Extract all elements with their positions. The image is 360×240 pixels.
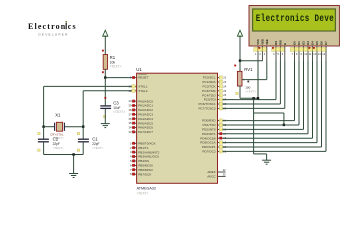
- wire D7: [325, 61, 327, 151]
- node reset junction: [104, 76, 106, 78]
- capacitor C1: [77, 132, 79, 134]
- wire bottom collector: [44, 154, 84, 156]
- svg-text:D2: D2: [302, 41, 306, 45]
- svg-text:<TEXT>: <TEXT>: [137, 191, 149, 195]
- node branch end: [283, 124, 285, 126]
- svg-text:PD4/OC1B: PD4/OC1B: [200, 136, 215, 140]
- svg-text:C3: C3: [113, 101, 119, 106]
- svg-text:C2: C2: [53, 137, 59, 142]
- svg-text:PA4/ADC4: PA4/ADC4: [138, 117, 153, 121]
- svg-text:D3: D3: [306, 41, 310, 45]
- svg-text:PD2/INT0: PD2/INT0: [202, 128, 216, 132]
- pin PC0/SCL (22): [218, 77, 223, 79]
- svg-text:D1: D1: [297, 41, 301, 45]
- svg-text:DEVELOPER: DEVELOPER: [38, 33, 68, 37]
- pin PB0/T0/XCK (1): [132, 142, 137, 144]
- resistor R1: [102, 50, 104, 52]
- pin PB4/SS (5): [132, 160, 137, 162]
- wire R1 to reset node: [104, 69, 106, 77]
- svg-text:VDD: VDD: [261, 39, 265, 45]
- svg-text:Electronics Deve: Electronics Deve: [256, 13, 334, 24]
- svg-text:AVCC: AVCC: [207, 175, 216, 179]
- svg-text:U1: U1: [136, 67, 142, 72]
- svg-text:PA5/ADC5: PA5/ADC5: [138, 121, 153, 125]
- svg-text:PC2/TCK: PC2/TCK: [203, 85, 217, 89]
- svg-text:PD3/INT1: PD3/INT1: [202, 132, 216, 136]
- svg-text:C1: C1: [92, 137, 98, 142]
- pin PB3/AIN1/OC0 (4): [132, 156, 137, 158]
- power VCC arrow (left): [103, 30, 108, 36]
- pin PD0/RXD (14): [218, 120, 223, 122]
- svg-text:PD7/OC2: PD7/OC2: [202, 150, 216, 154]
- wire RW: [279, 61, 281, 104]
- wire C1 down: [82, 142, 84, 155]
- LCD screen: [253, 9, 336, 31]
- svg-text:D5: D5: [315, 41, 319, 45]
- pin PD2/INT0 (16): [218, 128, 223, 130]
- pin PD7/OC2 (21): [218, 150, 223, 152]
- pin PA6/ADC6 (34): [132, 127, 137, 129]
- svg-text:cs: cs: [68, 22, 77, 31]
- wire wiper to VEE: [246, 79, 266, 81]
- svg-text:PC6/TOSC1: PC6/TOSC1: [198, 102, 215, 106]
- pin PC6/TOSC1 (28): [218, 103, 223, 105]
- wire reset node to U1 RESET: [105, 77, 132, 79]
- svg-text:<TEXT>: <TEXT>: [53, 146, 64, 150]
- svg-text:AREF: AREF: [207, 170, 215, 174]
- ground under C3: [101, 124, 110, 128]
- wire arrow to rail node: [239, 36, 241, 61]
- svg-text:PB6/MISO: PB6/MISO: [138, 168, 153, 172]
- wire D0: [294, 61, 296, 121]
- svg-text:XTAL2: XTAL2: [138, 89, 148, 93]
- pin PA0/ADC0 (40): [132, 100, 137, 102]
- op body U1 ATMEGA32: [137, 73, 218, 183]
- wire stem to ground: [73, 155, 75, 174]
- pin XTAL2 (12): [132, 90, 137, 92]
- node VSS join: [257, 97, 259, 99]
- wire ground run down: [253, 98, 255, 154]
- node crystal right: [82, 126, 84, 128]
- pin PB2/AIN0/INT2 (3): [132, 151, 137, 153]
- wire D5: [316, 61, 318, 143]
- svg-text:PB5/MOSI: PB5/MOSI: [138, 164, 153, 168]
- svg-text:ATMEGA32: ATMEGA32: [137, 187, 156, 191]
- svg-text:PD5/OC1A: PD5/OC1A: [200, 141, 216, 145]
- pin RESET (9): [132, 77, 137, 79]
- svg-text:PD1/TXD: PD1/TXD: [203, 123, 217, 127]
- wire ground jog: [254, 153, 267, 155]
- pot wiper arrow: [242, 79, 247, 81]
- potentiometer RV1: [234, 65, 236, 67]
- wire pot bottom: [239, 86, 241, 98]
- svg-text:PC7/TOSC2: PC7/TOSC2: [198, 107, 215, 111]
- svg-text:R1: R1: [110, 55, 116, 60]
- svg-text:VSS: VSS: [256, 39, 260, 45]
- wire right node to C1: [82, 127, 84, 140]
- node power rail: [239, 60, 241, 62]
- svg-text:VEE: VEE: [265, 39, 269, 45]
- wire D6: [321, 61, 323, 147]
- capacitor C3: [104, 97, 106, 99]
- pin PC4/TDO (26): [218, 94, 223, 96]
- LCD module body: [249, 6, 339, 47]
- pin PA2/ADC2 (38): [132, 109, 137, 111]
- pin PA1/ADC1 (39): [132, 105, 137, 107]
- pin AVCC (30): [218, 175, 226, 177]
- pin PA4/ADC4 (36): [132, 118, 137, 120]
- wire D4: [312, 61, 314, 138]
- svg-text:PD6/ICP1: PD6/ICP1: [202, 145, 216, 149]
- svg-text:PB7/SCK: PB7/SCK: [138, 172, 152, 176]
- wire E: [284, 61, 286, 108]
- wire D2: [303, 61, 305, 129]
- wire left node to C2: [43, 127, 45, 140]
- ground under LCD: [262, 160, 271, 164]
- wire crystal row: [44, 126, 55, 128]
- wire RS: [275, 61, 277, 100]
- svg-text:PC0/SCL: PC0/SCL: [203, 76, 216, 80]
- svg-text:XTAL1: XTAL1: [138, 85, 148, 89]
- pin PD1/TXD (15): [218, 124, 223, 126]
- svg-text:RV1: RV1: [244, 67, 253, 72]
- svg-text:PB4/SS: PB4/SS: [138, 159, 149, 163]
- pin PA5/ADC5 (35): [132, 122, 137, 124]
- wire C3 to ground: [104, 108, 106, 123]
- svg-text:E: E: [283, 43, 287, 45]
- pin PC2/TCK (24): [218, 85, 223, 87]
- svg-text:PB1/T1: PB1/T1: [138, 146, 149, 150]
- svg-text:PC5/TDI: PC5/TDI: [204, 98, 216, 102]
- pin PC7/TOSC2 (29): [218, 107, 223, 109]
- pin PB1/T1 (2): [132, 147, 137, 149]
- pin PD4/OC1B (18): [218, 137, 223, 139]
- wire D3: [307, 61, 309, 134]
- pin AREF (32): [218, 171, 226, 173]
- wire XTAL1: [44, 85, 132, 87]
- pin PB5/MOSI (6): [132, 164, 137, 166]
- pin PD5/OC1A (19): [218, 142, 223, 144]
- svg-text:RW: RW: [279, 40, 283, 45]
- svg-text:PA3/ADC3: PA3/ADC3: [138, 113, 153, 117]
- pin PC3/TMS (25): [218, 90, 223, 92]
- pin XTAL1 (13): [132, 85, 137, 87]
- pin PD3/INT1 (17): [218, 133, 223, 135]
- pin PD6/ICP1 (20): [218, 146, 223, 148]
- wire XTAL2: [83, 90, 132, 92]
- pin PC5/TDI (27): [218, 99, 223, 101]
- svg-text:<TEXT>: <TEXT>: [113, 110, 125, 114]
- ground under crystal caps: [69, 174, 78, 178]
- svg-text:PB0/T0/XCK: PB0/T0/XCK: [138, 142, 156, 146]
- svg-text:PD0/RXD: PD0/RXD: [202, 119, 216, 123]
- svg-text:<TEXT>: <TEXT>: [245, 89, 256, 93]
- wire power to R1: [104, 36, 106, 54]
- node crystal left: [42, 126, 44, 128]
- wire gnd branch right: [254, 112, 284, 114]
- svg-text:RS: RS: [274, 41, 278, 45]
- svg-text:<TEXT>: <TEXT>: [92, 146, 103, 150]
- wire reset node down to C3: [104, 78, 106, 106]
- wire power rail to VDD: [240, 60, 262, 62]
- svg-text:PA0/ADC0: PA0/ADC0: [138, 99, 153, 103]
- svg-text:PC3/TMS: PC3/TMS: [202, 89, 215, 93]
- pin PA3/ADC3 (37): [132, 113, 137, 115]
- svg-text:PC1/SDA: PC1/SDA: [202, 80, 216, 84]
- pin PB7/SCK (8): [132, 173, 137, 175]
- svg-text:PA7/ADC7: PA7/ADC7: [138, 130, 153, 134]
- svg-text:PB2/AIN0/INT2: PB2/AIN0/INT2: [138, 150, 159, 154]
- wire D1: [298, 61, 300, 125]
- svg-text:PA2/ADC2: PA2/ADC2: [138, 108, 153, 112]
- pin PA7/ADC7 (33): [132, 131, 137, 133]
- wire VSS down: [257, 61, 259, 98]
- svg-text:RESET: RESET: [138, 76, 148, 80]
- LCD screen text: [256, 13, 334, 24]
- svg-text:PA6/ADC6: PA6/ADC6: [138, 126, 153, 130]
- pin PC1/SDA (23): [218, 81, 223, 83]
- svg-text:PC4/TDO: PC4/TDO: [202, 93, 216, 97]
- svg-text:X1: X1: [55, 112, 61, 117]
- node ground stem: [72, 153, 74, 155]
- capacitor C2: [38, 132, 40, 134]
- svg-text:D7: D7: [324, 41, 328, 45]
- svg-text:D6: D6: [320, 41, 324, 45]
- svg-text:PB3/AIN1/OC0: PB3/AIN1/OC0: [138, 155, 159, 159]
- node gnd branch: [252, 97, 254, 99]
- svg-text:D4: D4: [311, 41, 315, 45]
- svg-text:D0: D0: [293, 41, 297, 45]
- power VCC arrow (right): [237, 30, 242, 36]
- svg-text:<TEXT>: <TEXT>: [110, 65, 122, 69]
- svg-text:Electron: Electron: [28, 22, 66, 31]
- svg-text:PA1/ADC1: PA1/ADC1: [138, 104, 153, 108]
- pin PB6/MISO (7): [132, 169, 137, 171]
- wire C2 down: [43, 142, 45, 155]
